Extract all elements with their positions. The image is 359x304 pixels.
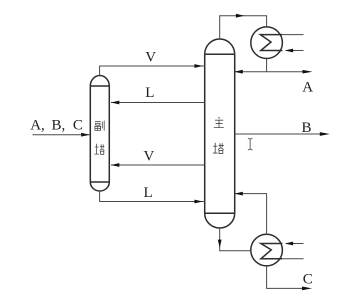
I-beam text cursor	[248, 138, 253, 150]
condenser E1 coil	[260, 35, 282, 51]
wire: condenser outlet down	[266, 59, 268, 72]
wire: reboiler vapour return	[235, 194, 267, 235]
wire: lower V line T1 to T2	[111, 164, 205, 166]
arrow: product B out	[320, 132, 330, 136]
arrow: reflux into T1	[234, 70, 242, 74]
arrow: steam into reboiler	[285, 242, 293, 246]
wire: top V line T2 to T1	[100, 66, 205, 75]
arrow: vapour return into T1	[234, 192, 242, 196]
arrow: overhead vapour to condenser	[236, 14, 244, 18]
glyph TA (aux column lower char)	[94, 144, 104, 155]
svg-text:L: L	[145, 85, 154, 101]
arrow: bottom L into T1	[194, 200, 202, 204]
wire: reflux plus distillate A	[235, 71, 305, 73]
arrow: feed into T2	[81, 133, 89, 137]
column T2 (auxiliary column) shell	[90, 76, 109, 192]
wire: bottom product C	[267, 266, 305, 289]
glyph ZHU (main column upper char)	[214, 117, 224, 128]
condenser E1 circle	[251, 27, 283, 59]
arrow: distillate A out	[303, 70, 313, 74]
wire: bottom L line T2 to T1	[100, 191, 205, 202]
glyph FU (aux column upper char)	[95, 121, 104, 131]
svg-text:L: L	[144, 185, 153, 201]
svg-text:C: C	[303, 271, 313, 287]
svg-text:V: V	[145, 50, 156, 66]
glyph TA (main column lower char)	[213, 143, 224, 154]
arrow: coolant into condenser	[285, 49, 293, 53]
svg-text:V: V	[144, 148, 155, 164]
arrow: upper L into T2	[111, 101, 119, 105]
svg-text:A: A	[302, 79, 313, 95]
reboiler E2 coil	[261, 244, 283, 259]
svg-text:B,: B,	[52, 117, 66, 133]
wire: upper L line T1 to T2	[111, 102, 205, 104]
arrow: bottoms down into reboiler line	[218, 240, 222, 248]
svg-text:C: C	[73, 117, 83, 133]
column T1 (main column) shell	[205, 39, 235, 228]
arrow: lower V into T2	[111, 163, 119, 167]
arrow: top V into T1	[194, 64, 202, 68]
wire: condenser coolant inlet	[282, 35, 304, 51]
arrow: bottom product C out	[302, 287, 312, 291]
wire: feed line	[33, 134, 90, 136]
wire: overhead vapour T1 to condenser	[220, 16, 267, 39]
svg-text:B: B	[302, 120, 312, 136]
reboiler E2 circle	[251, 234, 283, 266]
svg-text:A,: A,	[30, 117, 45, 133]
wire: reboiler steam inlet	[282, 244, 304, 259]
wire: product B	[235, 133, 322, 135]
wire: bottoms to reboiler	[220, 228, 251, 251]
